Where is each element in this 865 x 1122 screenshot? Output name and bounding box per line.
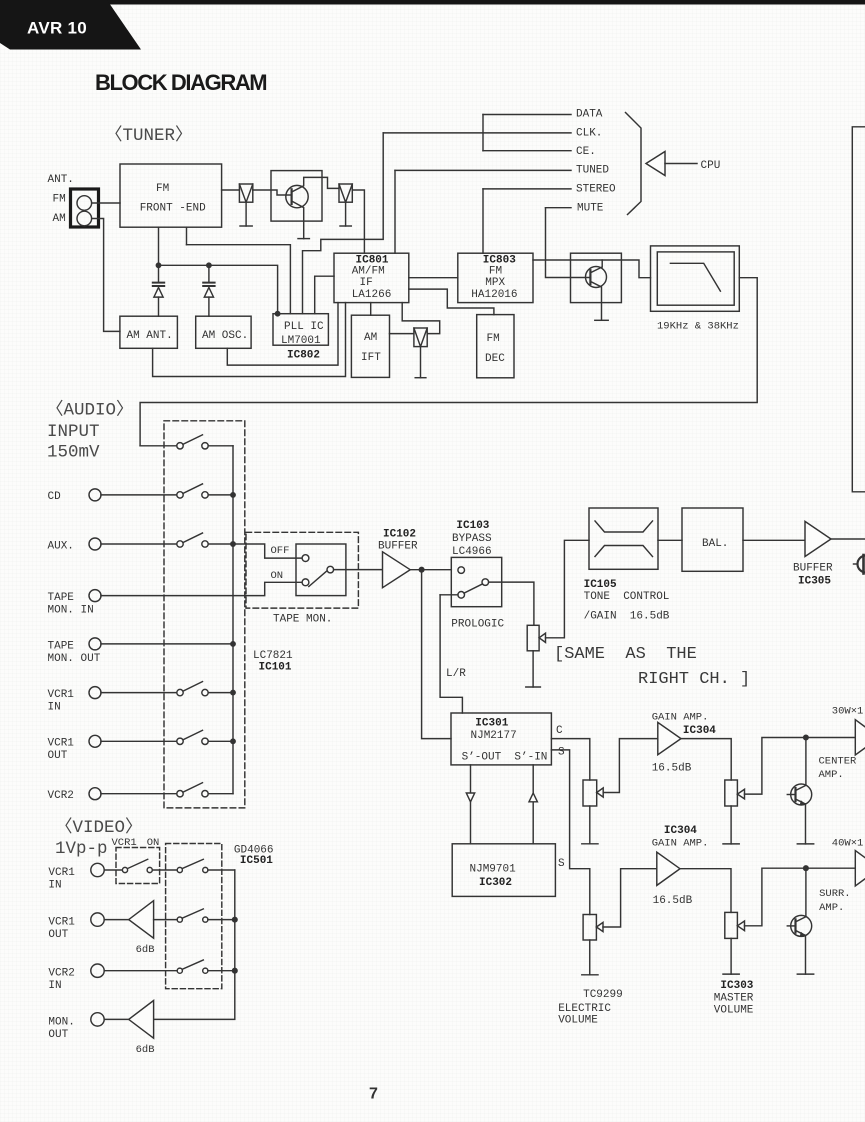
svg-text:BAL.: BAL. (702, 538, 728, 550)
svg-text:VOLUME: VOLUME (714, 1005, 754, 1017)
svg-text:CENTER: CENTER (819, 756, 858, 768)
svg-text:6dB: 6dB (136, 944, 155, 956)
svg-text:AUX.: AUX. (48, 541, 74, 553)
svg-text:AM: AM (364, 332, 377, 344)
svg-text:AM ANT.: AM ANT. (127, 330, 173, 342)
svg-text:OFF: OFF (271, 545, 290, 557)
svg-text:MON. IN: MON. IN (48, 605, 94, 617)
svg-text:OUT: OUT (48, 750, 68, 762)
svg-text:CPU: CPU (701, 160, 721, 172)
svg-text:MON. OUT: MON. OUT (48, 653, 101, 665)
svg-text:[SAME AS THE: [SAME AS THE (554, 645, 697, 664)
svg-text:DATA: DATA (576, 109, 603, 121)
svg-text:ANT.: ANT. (48, 174, 74, 186)
svg-text:FM: FM (156, 183, 169, 195)
svg-text:FM: FM (489, 266, 502, 278)
svg-text:BUFFER: BUFFER (378, 541, 418, 553)
svg-text:IN: IN (48, 880, 61, 892)
svg-text:NJM2177: NJM2177 (471, 730, 517, 742)
svg-text:BYPASS: BYPASS (452, 533, 492, 545)
svg-text:C: C (556, 725, 563, 737)
svg-text:〈TUNER〉: 〈TUNER〉 (105, 125, 193, 146)
svg-text:IN: IN (48, 702, 61, 714)
svg-text:VCR2: VCR2 (48, 968, 74, 980)
svg-text:LC7821: LC7821 (253, 650, 293, 662)
svg-text:PROLOGIC: PROLOGIC (451, 619, 504, 631)
svg-text:CE.: CE. (576, 146, 596, 158)
svg-text:PLL IC: PLL IC (284, 321, 324, 333)
svg-text:IN: IN (48, 980, 61, 992)
svg-text:30W×1: 30W×1 (832, 706, 864, 718)
svg-text:TUNED: TUNED (576, 165, 609, 177)
svg-text:HA12016: HA12016 (471, 289, 517, 301)
svg-text:BLOCK DIAGRAM: BLOCK DIAGRAM (95, 70, 266, 95)
svg-text:6dB: 6dB (136, 1044, 155, 1056)
svg-text:IC303: IC303 (720, 980, 753, 992)
svg-text:IC101: IC101 (259, 662, 292, 674)
svg-text:19KHz & 38KHz: 19KHz & 38KHz (657, 321, 739, 333)
svg-text:IF: IF (360, 277, 373, 289)
svg-text:LA1266: LA1266 (352, 289, 392, 301)
svg-text:IC102: IC102 (383, 529, 416, 541)
svg-text:FM: FM (487, 333, 500, 345)
svg-text:TAPE: TAPE (48, 641, 75, 653)
svg-text:VCR1: VCR1 (48, 867, 75, 879)
svg-text:AM OSC.: AM OSC. (202, 330, 248, 342)
svg-text:40W×1: 40W×1 (832, 838, 864, 850)
svg-text:S: S (558, 747, 565, 759)
svg-text:AMP.: AMP. (819, 902, 844, 914)
svg-text:AM/FM: AM/FM (352, 266, 385, 278)
svg-text:STEREO: STEREO (576, 184, 616, 196)
svg-text:TAPE: TAPE (48, 592, 75, 604)
svg-text:1Vp-p: 1Vp-p (55, 839, 108, 859)
svg-text:TC9299: TC9299 (583, 989, 623, 1001)
svg-text:IC105: IC105 (584, 579, 617, 591)
svg-text:IC802: IC802 (287, 350, 320, 362)
svg-text:VCR1: VCR1 (48, 689, 75, 701)
svg-text:IC304: IC304 (664, 825, 697, 837)
svg-text:16.5dB: 16.5dB (653, 895, 693, 907)
svg-text:NJM9701: NJM9701 (470, 864, 517, 876)
svg-text:S’-OUT S’-IN: S’-OUT S’-IN (462, 752, 548, 764)
svg-text:ON: ON (147, 837, 160, 849)
svg-text:AMP.: AMP. (819, 769, 844, 781)
svg-text:AM: AM (53, 213, 66, 225)
svg-text:ELECTRIC: ELECTRIC (558, 1003, 611, 1015)
svg-text:TAPE MON.: TAPE MON. (273, 614, 332, 626)
svg-text:CD: CD (48, 491, 62, 503)
svg-text:VCR1: VCR1 (48, 738, 75, 750)
svg-text:VCR2: VCR2 (48, 790, 74, 802)
svg-text:GAIN AMP.: GAIN AMP. (652, 712, 709, 724)
svg-text:IFT: IFT (361, 352, 381, 364)
svg-text:LM7001: LM7001 (281, 335, 321, 347)
svg-text:〈AUDIO〉: 〈AUDIO〉 (46, 400, 134, 421)
svg-text:IC302: IC302 (479, 877, 512, 889)
svg-text:INPUT: INPUT (47, 422, 100, 442)
svg-text:〈VIDEO〉: 〈VIDEO〉 (55, 817, 143, 838)
svg-text:VCR1: VCR1 (112, 837, 137, 849)
svg-text:MPX: MPX (485, 277, 505, 289)
svg-text:ON: ON (271, 570, 284, 582)
svg-text:/GAIN 16.5dB: /GAIN 16.5dB (584, 611, 670, 623)
svg-text:CLK.: CLK. (576, 128, 602, 140)
svg-text:IC301: IC301 (475, 718, 508, 730)
svg-text:16.5dB: 16.5dB (652, 763, 692, 775)
svg-text:IC103: IC103 (456, 520, 489, 532)
svg-text:7: 7 (369, 1086, 378, 1103)
svg-text:IC305: IC305 (798, 576, 831, 588)
svg-text:RIGHT CH. ]: RIGHT CH. ] (638, 670, 750, 689)
svg-text:DEC: DEC (485, 353, 505, 365)
svg-text:AVR 10: AVR 10 (27, 19, 87, 38)
svg-text:MUTE: MUTE (577, 203, 604, 215)
svg-text:S: S (558, 858, 565, 870)
svg-text:BUFFER: BUFFER (793, 563, 833, 575)
svg-text:MON.: MON. (48, 1017, 74, 1029)
svg-text:VOLUME: VOLUME (558, 1015, 598, 1027)
svg-text:L/R: L/R (446, 668, 466, 680)
svg-text:SURR.: SURR. (819, 888, 851, 900)
svg-text:FRONT -END: FRONT -END (140, 203, 206, 215)
svg-text:OUT: OUT (48, 929, 68, 941)
svg-text:150mV: 150mV (47, 443, 100, 463)
svg-text:MASTER: MASTER (714, 993, 754, 1005)
svg-text:VCR1: VCR1 (48, 917, 75, 929)
svg-text:LC4966: LC4966 (452, 546, 492, 558)
svg-text:IC304: IC304 (683, 725, 716, 737)
svg-text:IC501: IC501 (240, 855, 273, 867)
svg-text:FM: FM (53, 194, 66, 206)
svg-text:GAIN AMP.: GAIN AMP. (652, 838, 709, 850)
svg-text:OUT: OUT (48, 1029, 68, 1041)
svg-text:TONE CONTROL: TONE CONTROL (584, 591, 670, 603)
